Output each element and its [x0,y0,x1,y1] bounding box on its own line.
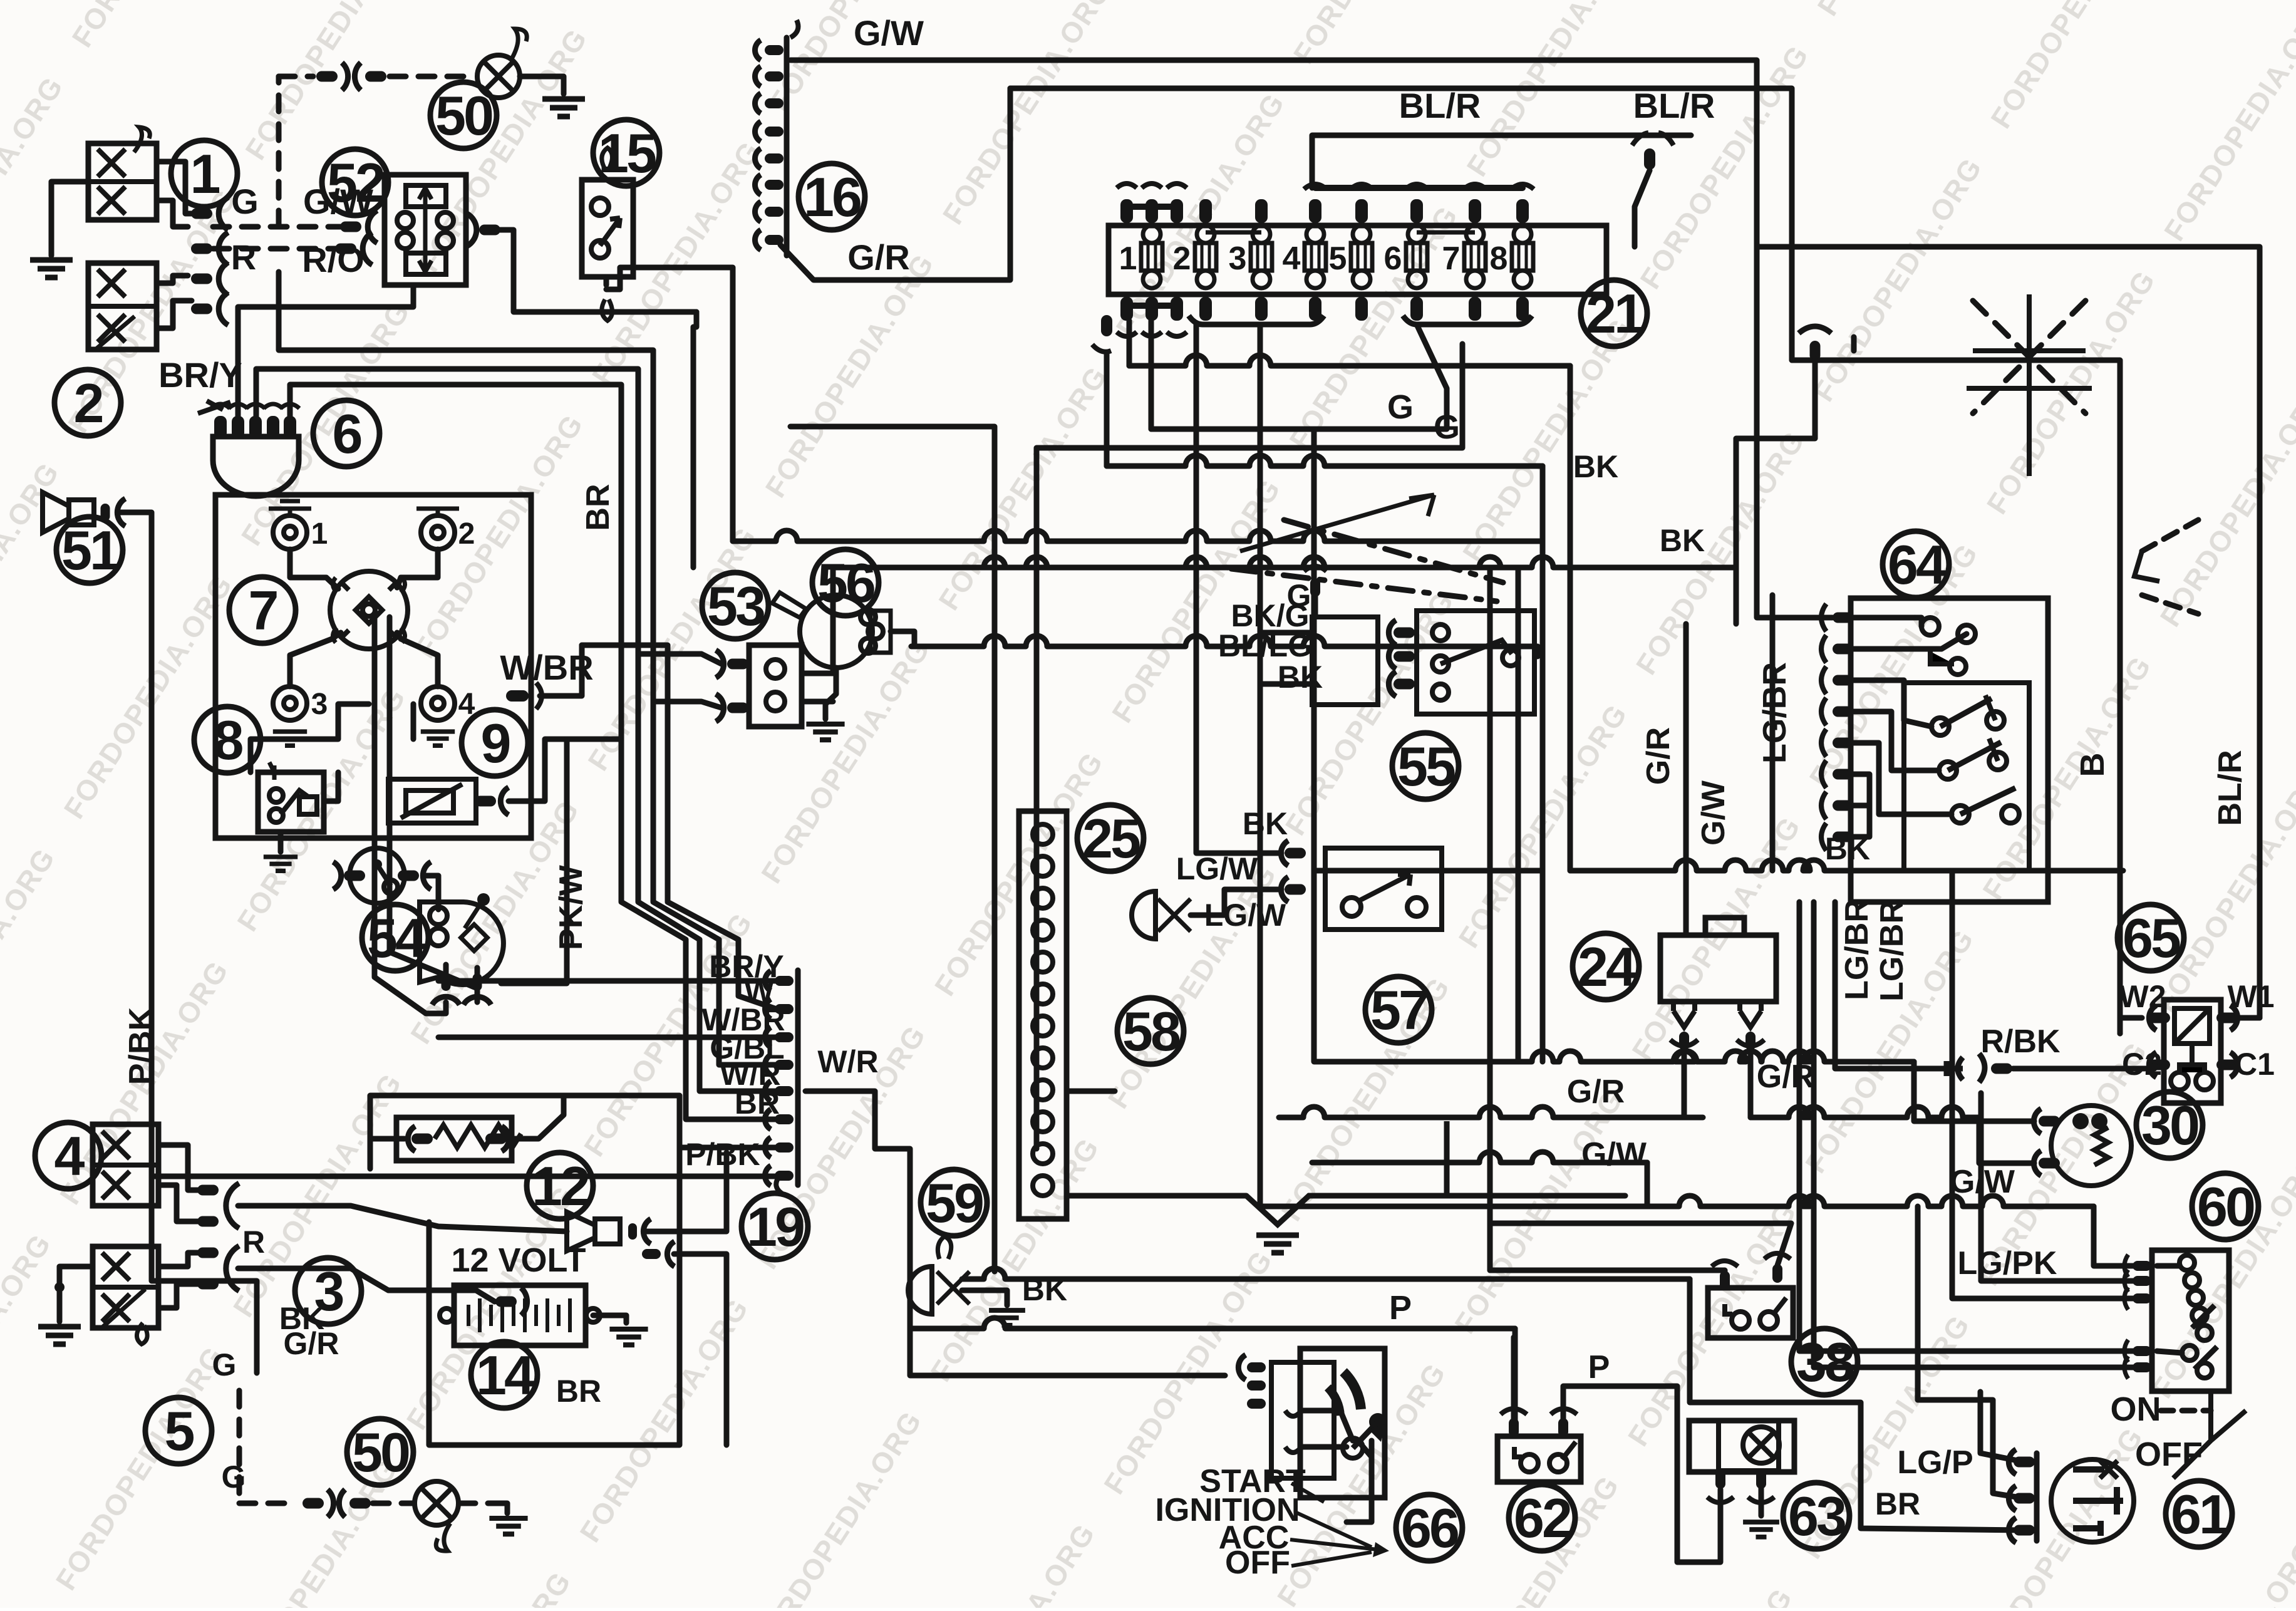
callout circle 61 [2166,1481,2232,1547]
svg-text:25: 25 [1082,807,1140,869]
connector pin [1810,341,1821,361]
ground [989,1310,1025,1325]
wire blk wire3 [509,739,621,801]
wire 59 BK down [1690,1279,2024,1530]
wire pump gnd [825,668,836,719]
wire to53b [653,702,721,708]
wire on dash [2161,1408,2211,1414]
connector socket arc [363,232,372,265]
connector socket arc [716,650,724,678]
connector pin [485,1134,507,1144]
wire 60 i2 [2157,1351,2182,1353]
wire beam diag [1973,301,2086,413]
wire 62 P wire [1511,1337,1517,1423]
svg-text:G/R: G/R [1640,727,1677,785]
svg-text:19: 19 [747,1196,804,1258]
wire 60 in4 [1799,902,2142,1351]
callout circle 62 [1509,1484,1575,1551]
svg-text:BL/R: BL/R [1399,86,1481,125]
wire G dash bot1 [237,1391,242,1503]
wire dyn wB [256,369,777,1091]
connector socket arc [2230,1005,2238,1030]
wire H864 down [1540,541,1546,1062]
connector pin [2216,1060,2238,1070]
connector pin [1833,800,1853,811]
svg-text:R: R [242,1225,265,1260]
connector pin [1285,848,1306,859]
connector socket arc [408,1126,415,1151]
wire GW long b [1645,1163,1650,1206]
wire G dash bot4 [459,1501,501,1506]
svg-text:BR: BR [735,1085,780,1121]
wire BR in [680,1145,777,1151]
callout circle 25 [1077,805,1144,871]
fuse 6 [1406,243,1427,271]
svg-text:G/R: G/R [847,237,910,277]
svg-text:62: 62 [1514,1487,1571,1549]
svg-text:1: 1 [1119,241,1137,277]
wire GW across [1260,752,1647,1206]
wire 53out2 [802,699,833,705]
svg-text:C1: C1 [2235,1047,2275,1082]
wire wiper dashdot [1231,569,1497,601]
connector socket arc [765,1109,770,1129]
connector pin [1310,578,1320,597]
wire GW long d [2094,1206,2147,1266]
wire R dash [213,246,346,252]
wiper arm sketch 55 [1240,495,1434,551]
svg-text:5: 5 [1329,241,1347,277]
switch 15 (hazard/brake) [582,180,633,277]
ground [1256,1235,1299,1253]
svg-text:7: 7 [249,579,277,641]
wire bulb50b gnd [501,1503,507,1513]
wire PBK in [152,1174,777,1179]
switch internals 64 [1904,683,2029,871]
ground [30,260,73,277]
headlamp unit RH lower [88,263,157,350]
wire f1 drop a [1104,353,1110,466]
callout circle 56 [812,549,879,616]
connector socket arc [1238,1355,1246,1380]
callout circle 53 [702,572,768,639]
wire strip25 gnd [1067,1193,1246,1199]
connector socket arc [765,1055,770,1075]
connector pin [495,1297,517,1307]
callout circle 24 [1573,933,1639,1000]
wire horn51 wire [118,512,257,1373]
svg-text:G/R: G/R [1567,1074,1625,1110]
svg-text:59: 59 [926,1172,983,1234]
svg-text:G/W: G/W [854,13,924,53]
connector socket arc [765,1081,770,1101]
svg-text:6: 6 [1384,241,1402,277]
wire v2379 [1487,567,1493,1270]
connector pin [765,127,783,137]
connector pin [303,1498,324,1509]
connector socket arc [2009,1449,2016,1474]
wire flasher out [497,230,696,312]
svg-text:2: 2 [1173,241,1191,277]
connector pin [1247,1362,1266,1372]
callout circle 8 [194,707,261,773]
spark plug 4 [421,686,455,720]
wire 64 i4 [1853,712,1939,770]
connector socket arc [765,971,770,991]
wire G/W top [790,60,1757,247]
svg-text:PK/W: PK/W [553,864,589,950]
wire GW vert down [1757,247,1833,618]
callout circle 38 [1791,1329,1858,1395]
bulb [477,55,520,98]
wire horn3 wireB [674,1254,727,1445]
wire 24 out2 [1748,1050,1754,1117]
connector pin [628,1223,637,1240]
callout circle 2 [54,370,121,436]
connector pin [1833,832,1853,842]
connector socket arc [755,175,760,195]
callout circle 63 [1783,1483,1849,1549]
connector pin [191,304,212,314]
connector pin [1679,1032,1689,1050]
wire lamp1 feed b [157,200,188,227]
ground [421,732,455,745]
connector pin [1247,1380,1266,1391]
connector pin [2014,1493,2035,1504]
ballast resistor 12 [396,1117,512,1161]
bus below fuses 2-4 [1189,316,1324,324]
svg-text:6: 6 [333,403,361,465]
ground [273,732,307,745]
wire relay feed1 [1490,1270,1725,1278]
svg-text:16: 16 [804,166,861,228]
callout circle 1 [171,140,237,207]
wire lead3 [290,633,341,686]
wire G dash up [276,76,282,227]
wire GR across [1314,542,1518,1062]
svg-text:54: 54 [367,907,426,969]
connector pin [765,71,783,81]
wire 55 BK wire [1260,681,1312,687]
connector pin [1644,148,1655,170]
ground [609,1329,648,1345]
wire lead1 [290,549,338,589]
wire GR vert [1516,624,1521,1062]
fuse 4 [1305,243,1326,271]
wire bus581 a [1127,321,1132,366]
wire strip19 bar [795,970,801,1185]
wire G wire vert [1149,321,1154,429]
wire bus 498b [693,312,696,567]
connector pin [191,274,212,284]
connector socket arc [117,499,125,526]
connector pin [1833,769,1853,780]
connector pin [1101,315,1112,336]
svg-text:LG/W: LG/W [1176,851,1258,886]
fuse 7 [1464,243,1486,271]
connector pin [442,973,451,991]
wire lead2 [397,549,438,588]
svg-text:50: 50 [352,1421,409,1483]
wire 65 W1 wire [2236,1015,2260,1021]
wire BRY in [438,978,777,984]
svg-text:24: 24 [1578,936,1637,998]
headlamp unit LH (components 4/5) [93,1124,158,1206]
wire LGBR vert [1770,595,1776,871]
connector socket arc [755,66,760,86]
callout circle 14 [471,1342,537,1408]
ground [264,857,297,871]
connector socket arc [765,1027,770,1047]
callout circle 12 [527,1153,593,1219]
connector pin [1991,1064,2012,1074]
svg-text:G/R: G/R [284,1326,339,1361]
wire G dash [213,224,351,230]
connector pin [727,659,748,670]
wire P line down [1513,1329,1518,1423]
connector socket arc [333,862,341,889]
callout circle 57 [1365,976,1432,1043]
wire GR across top [1311,429,1317,542]
connector pin [1833,738,1853,749]
callout circle 30 [2136,1092,2203,1158]
wire 64 i6 [1853,774,1869,837]
wire GW heater b [1979,1117,2034,1163]
connector pin [765,153,783,163]
svg-text:BR: BR [1875,1486,1920,1521]
wire 60 i1 [2157,1263,2180,1269]
connector socket arc [2034,1151,2041,1176]
wire beam dash4 [2142,595,2198,614]
svg-text:R: R [231,237,256,277]
callout circle 65 [2118,904,2184,971]
connector pin [1285,884,1306,895]
svg-text:14: 14 [476,1344,535,1406]
wire bat encl [429,1222,680,1445]
connector pin [197,1279,219,1290]
connector pin [727,703,748,713]
wire G dash top [279,74,313,80]
callout circle 9 [462,710,528,776]
wire H906 down [1734,567,1739,624]
svg-text:B: B [2074,753,2111,777]
wire GR long2 [1279,1107,1703,1117]
wire BLR down right [1757,247,2260,1018]
svg-text:BK: BK [1243,806,1288,841]
wire G dash top2 [390,74,475,80]
connector socket arc [716,694,724,722]
connector pin [191,209,212,219]
bulb [1743,1427,1779,1463]
fuse 1 extra tabs [1120,199,1133,223]
wire f3 vert [1258,324,1263,542]
callout circle 5 [145,1397,212,1464]
wire pump out [891,631,914,646]
wire G/R to horn [238,1268,495,1302]
wire 24 out1 [1682,1050,1687,1117]
wire GW long a [1312,1152,1647,1163]
connector pin [1394,679,1415,690]
connector pin [1558,1418,1568,1437]
connector pin [2216,1013,2238,1023]
wire box55 bottom [1314,868,1543,874]
dynamo / generator 6 [213,437,299,496]
wire RBK left [1835,902,1947,1069]
connector pin [775,976,794,986]
wire relay feed2 [1490,1223,1791,1265]
wire 66 c1 [1301,1411,1353,1441]
wire GW heater [1750,1107,1979,1117]
svg-text:BL/R: BL/R [2212,750,2248,826]
connector pin [344,871,365,881]
connector socket arc [755,93,760,113]
connector pin [506,690,529,702]
connector pin [2133,1346,2151,1356]
connector socket arc [219,293,228,325]
wire bundleWBR [582,645,777,1009]
svg-text:W2: W2 [2119,979,2166,1014]
svg-text:OFF: OFF [1225,1545,1290,1581]
svg-text:8: 8 [214,709,243,771]
callout circle 52 [322,149,388,215]
svg-text:55: 55 [1397,735,1455,797]
wire 61 bar [2034,1453,2040,1541]
svg-text:W1: W1 [2228,979,2275,1014]
connector pin [349,1498,371,1509]
connector pin [1720,1271,1730,1290]
wire BK hook [1851,337,1857,351]
wire 55 BLLG wire [1535,646,1541,656]
spark plug 2 [421,515,455,549]
connector pin [316,71,338,82]
spark plug 1 [273,515,307,549]
fuse 8 [1512,243,1533,271]
svg-text:21: 21 [1586,282,1643,344]
ground [1743,1522,1779,1537]
svg-text:1: 1 [311,517,328,551]
svg-text:P/BK: P/BK [123,1007,159,1085]
fuse 2 [1195,243,1216,271]
connector socket arc [755,230,760,250]
svg-text:30: 30 [2141,1094,2198,1156]
svg-text:BR: BR [580,484,616,531]
connector pin [191,244,212,254]
distributor 7 [330,571,408,649]
connector pin [2133,1276,2151,1286]
connector pin [775,1142,794,1153]
wire WR out [805,1091,1225,1375]
callout circle 4 [35,1122,101,1189]
connector socket arc [1388,671,1396,697]
wire 58 wire [1191,889,1281,915]
connector pin [1394,628,1415,638]
wire 52 down a [238,285,413,416]
wire GR long [1518,1051,1914,1062]
wire 53out [802,567,1531,673]
svg-text:BK: BK [1660,523,1705,558]
svg-text:4: 4 [1283,241,1301,277]
wire 59 gnd wire [962,1290,1007,1305]
svg-text:12: 12 [532,1155,589,1217]
connector pin [365,71,386,82]
wire GW vert [1683,624,1689,935]
svg-text:OFF: OFF [2135,1436,2203,1473]
svg-text:BK: BK [1022,1272,1067,1307]
wire f1 drop b [1540,466,1546,541]
svg-text:57: 57 [1370,979,1427,1041]
wire 65 W2 wire [2120,1018,2142,1033]
headlamp unit RH (components 1/2) [88,143,157,220]
connector pin [775,1086,794,1096]
connector pin [197,1185,219,1196]
wire lamp1 feed a [157,162,192,214]
connector pin [101,504,110,521]
svg-text:G: G [222,1459,246,1494]
svg-text:65: 65 [2123,907,2180,969]
connector pin [1715,1470,1725,1489]
connector socket arc [2009,1486,2016,1511]
wire lamp2 feed b [157,301,192,328]
svg-text:4: 4 [54,1125,85,1187]
svg-text:2: 2 [458,517,475,551]
wire G/R from 16 [780,88,1010,280]
wire H864 [733,531,1543,541]
wire sw15 out [604,277,609,285]
callout circle 50 [430,82,497,148]
connector pin [2149,1060,2170,1070]
callout circle 55 [1392,733,1459,799]
wire sw15 to right bus [606,267,733,541]
connector pin [765,235,783,245]
connector pin [2149,1013,2170,1023]
svg-text:1: 1 [190,143,220,205]
connector socket arc [463,997,491,1005]
wire lead4 [397,633,438,686]
connector socket arc [765,1137,770,1158]
wire B down right [1792,360,2120,1033]
connector socket arc [755,122,760,142]
connector pin [197,1216,219,1227]
connector socket arc [755,40,760,60]
wire 61 top wire [1980,1392,2024,1462]
wire RBK wire [2013,1065,2154,1069]
wire 60 in5 [1814,902,2142,1367]
bus below fuses 6-8 [1403,316,1532,324]
callout circle 51 [56,517,123,583]
wire 55 feeds [1258,542,1263,752]
connector pin [335,244,356,254]
svg-text:LG/BR: LG/BR [1839,899,1875,1000]
wire BLR wire [1312,135,1691,188]
wire 63 gnd [1759,1488,1764,1516]
svg-text:3: 3 [311,688,328,721]
wire gnd line ext [1309,1193,1625,1199]
svg-text:BK: BK [1825,831,1870,866]
svg-text:G: G [1434,408,1460,446]
svg-text:G/W: G/W [303,182,373,221]
svg-text:R/O: R/O [302,240,365,279]
wire lamp5 a [158,1253,198,1267]
oil pressure switch 8 [258,772,324,832]
wire wiper dash2 [1284,520,1503,583]
wire 62 P wire2 [1563,1386,1720,1562]
wire coil out [423,876,438,909]
wire 64 i7 [1853,803,1869,809]
svg-text:P: P [1389,1289,1412,1327]
connector socket arc [432,997,460,1005]
wire pump wires2 [475,968,480,982]
wire bulb50 gnd wire [520,76,564,94]
